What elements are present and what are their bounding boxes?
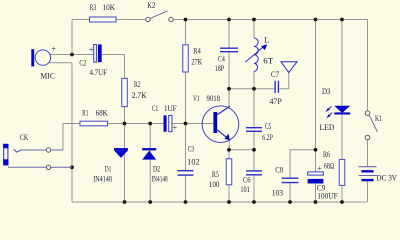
node rail C9 xyxy=(314,200,318,204)
wire R6 bottom lead xyxy=(341,185,343,202)
wire L bottom lead xyxy=(253,72,255,89)
node base R4 xyxy=(184,122,188,126)
svg-text:101: 101 xyxy=(240,185,249,194)
capacitor C4 xyxy=(220,48,238,52)
wire emitter stub xyxy=(228,140,230,150)
svg-text:103: 103 xyxy=(272,188,283,197)
D3 emission arrows xyxy=(326,106,333,118)
resistor R5 xyxy=(226,159,232,185)
node collector right xyxy=(252,87,256,91)
svg-text:6T: 6T xyxy=(263,56,273,65)
capacitor C7 xyxy=(275,81,278,93)
resistor R4 xyxy=(183,45,189,72)
wire collector node to C7 xyxy=(254,88,274,90)
wire R2 bottom to base row xyxy=(124,107,126,124)
svg-text:+: + xyxy=(317,164,322,173)
svg-text:R4: R4 xyxy=(193,47,200,56)
wire L top lead xyxy=(253,20,255,39)
capacitor C5 xyxy=(246,128,262,132)
wire C6 bottom lead xyxy=(253,175,255,202)
resistor R3 xyxy=(90,17,117,22)
wire CK tip to circle xyxy=(22,149,47,151)
node collector left xyxy=(227,87,231,91)
switch K1 xyxy=(365,111,377,140)
node rail C8 xyxy=(288,200,292,204)
svg-text:R2: R2 xyxy=(134,80,141,89)
wire D1 branch xyxy=(124,124,126,203)
svg-text:C2: C2 xyxy=(79,58,86,67)
wire C5 bottom lead to emitter row xyxy=(253,132,255,150)
svg-text:C5: C5 xyxy=(265,122,271,131)
wire K1 to battery xyxy=(367,140,369,166)
switch K2 xyxy=(146,11,173,22)
LED D3 xyxy=(334,106,350,115)
wire MIC+ to C2 xyxy=(49,54,94,56)
wire ground rail xyxy=(72,201,368,203)
node base D2 xyxy=(148,122,152,126)
svg-text:10K: 10K xyxy=(103,3,116,12)
svg-text:CK: CK xyxy=(20,133,29,142)
node rail C3 xyxy=(184,200,188,204)
wire C8 bottom lead xyxy=(289,183,291,202)
svg-text:K1: K1 xyxy=(375,114,382,123)
svg-text:R6: R6 xyxy=(323,150,330,159)
svg-text:27K: 27K xyxy=(191,58,202,67)
wire R5 top lead xyxy=(228,150,230,159)
wire emitter row xyxy=(229,149,254,151)
wire top rail right segment xyxy=(173,19,367,21)
wire K1 top lead xyxy=(367,20,369,111)
svg-text:K2: K2 xyxy=(147,1,155,10)
diode D1 xyxy=(114,148,128,158)
node base D1 xyxy=(123,122,127,126)
wire MIC- horizontal xyxy=(48,62,72,64)
wire D2 branch xyxy=(149,124,151,203)
capacitor C1 xyxy=(164,115,173,131)
svg-text:C7: C7 xyxy=(271,70,279,79)
battery DC 3V xyxy=(359,167,377,180)
svg-text:18P: 18P xyxy=(215,64,225,73)
wire MIC- vertical down to ground rail xyxy=(71,63,73,202)
svg-text:+: + xyxy=(173,123,178,132)
resistor R2 xyxy=(122,78,128,106)
svg-text:68Ω: 68Ω xyxy=(324,161,334,170)
wire C3 to ground rail xyxy=(185,176,187,202)
transistor V1 xyxy=(202,106,239,143)
node filter row xyxy=(314,148,318,152)
inductor L xyxy=(254,38,258,72)
svg-text:+: + xyxy=(89,45,94,54)
node emitter left xyxy=(227,148,231,152)
node D3 top xyxy=(340,18,344,22)
wire C1 to transistor base xyxy=(172,123,213,125)
svg-text:47P: 47P xyxy=(270,97,283,106)
wire D3 top lead xyxy=(341,20,343,106)
wire top rail R3-to-K2 xyxy=(116,19,146,21)
svg-text:68K: 68K xyxy=(96,109,108,118)
wire base node down to C3 xyxy=(185,124,187,171)
svg-text:C8: C8 xyxy=(275,165,283,174)
svg-text:2.7K: 2.7K xyxy=(132,91,147,100)
diode D2 xyxy=(142,148,156,160)
node rail R5 xyxy=(227,200,231,204)
svg-text:9018: 9018 xyxy=(207,94,221,103)
svg-text:D1: D1 xyxy=(105,164,112,173)
wire R1 to C1 (base row) xyxy=(108,123,164,125)
capacitor C8 xyxy=(282,178,299,182)
resistor R1 xyxy=(80,121,108,126)
CK sleeve contact circle xyxy=(46,165,50,169)
capacitor C3 xyxy=(178,171,194,175)
svg-text:DC 3V: DC 3V xyxy=(376,173,397,182)
node emitter right xyxy=(252,148,256,152)
wire CK tip circle to R1 step xyxy=(63,124,80,151)
svg-text:102: 102 xyxy=(187,157,199,166)
svg-text:LED: LED xyxy=(320,123,335,132)
wire C4 top lead xyxy=(228,20,230,48)
svg-text:R1: R1 xyxy=(82,109,88,118)
wire CK sleeve circle to ground junction xyxy=(51,166,72,168)
wire CK tip circle to step xyxy=(51,149,63,151)
antenna xyxy=(281,62,297,73)
wire C7 to antenna corner xyxy=(279,73,288,89)
wire C2 to R2 top corner xyxy=(102,55,125,79)
svg-text:R3: R3 xyxy=(90,3,96,12)
resistor R6 xyxy=(339,159,345,185)
svg-text:1UF: 1UF xyxy=(164,104,177,113)
wire R5 bottom lead xyxy=(228,185,230,202)
svg-text:R5: R5 xyxy=(212,170,219,179)
svg-text:IN4148: IN4148 xyxy=(152,175,168,184)
svg-text:6.2P: 6.2P xyxy=(262,133,273,142)
wire C8 corner from node row xyxy=(290,150,316,178)
wire battery to ground rail xyxy=(367,181,369,202)
svg-text:C1: C1 xyxy=(152,104,158,113)
wire supply filter column top xyxy=(315,20,317,150)
wire C6 top lead xyxy=(253,150,255,171)
capacitor C2 xyxy=(94,44,102,62)
node filter column top xyxy=(314,18,318,22)
wire collector stub xyxy=(228,89,230,107)
capacitor C6 xyxy=(246,171,262,175)
svg-text:100UF: 100UF xyxy=(317,192,338,201)
svg-text:C4: C4 xyxy=(218,55,225,64)
svg-text:4.7UF: 4.7UF xyxy=(90,68,108,77)
node MIC plus xyxy=(70,53,74,57)
CK tip contact circle xyxy=(46,148,50,152)
svg-text:100: 100 xyxy=(209,180,220,189)
node rail D2 xyxy=(148,200,152,204)
wire collector node row xyxy=(229,88,254,90)
microphone MIC xyxy=(31,49,50,66)
wire left vertical to MIC+ xyxy=(71,20,73,55)
wire CK sleeve to circle xyxy=(8,166,46,168)
svg-text:C6: C6 xyxy=(243,175,251,184)
svg-text:C3: C3 xyxy=(188,145,194,154)
L adjust arrow xyxy=(246,44,268,62)
svg-text:L: L xyxy=(264,35,269,44)
wire D3 to R6 lead xyxy=(341,115,343,160)
svg-text:V1: V1 xyxy=(193,94,200,103)
capacitor C9 xyxy=(308,172,324,184)
node C4 top xyxy=(227,18,231,22)
svg-text:MIC: MIC xyxy=(40,72,55,81)
wire C5 top lead xyxy=(253,89,255,127)
wire R4 top lead xyxy=(185,20,187,45)
svg-text:D2: D2 xyxy=(153,164,160,173)
node R4 top xyxy=(184,18,188,22)
jack CK xyxy=(3,144,21,165)
wire C4 bottom lead to collector node xyxy=(228,52,230,89)
node rail R6 xyxy=(340,200,344,204)
svg-text:IN4148: IN4148 xyxy=(93,175,112,184)
wire R4 bottom lead xyxy=(185,72,187,124)
wire C9 top lead xyxy=(315,150,317,172)
node rail D1 xyxy=(123,200,127,204)
svg-text:D3: D3 xyxy=(322,87,331,96)
wire C9 bottom lead xyxy=(315,184,317,202)
node L top xyxy=(252,18,256,22)
node CK sleeve xyxy=(70,165,74,169)
svg-text:+: + xyxy=(51,44,56,53)
node rail C6 xyxy=(252,200,256,204)
wire top rail left segment xyxy=(72,19,90,21)
